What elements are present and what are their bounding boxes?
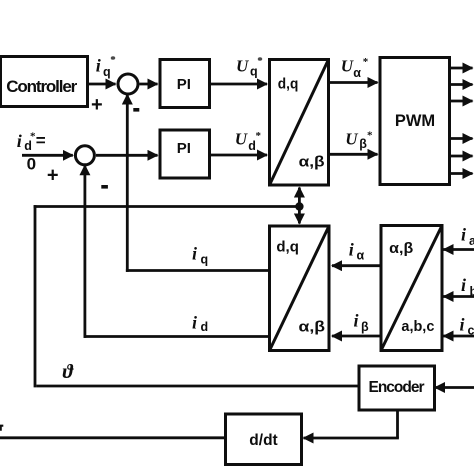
svg-text:a: a [469, 234, 474, 248]
svg-text:PI: PI [177, 76, 191, 93]
junction dot theta [295, 202, 303, 210]
svg-text:PWM: PWM [395, 112, 435, 130]
svg-text:PI: PI [177, 140, 191, 157]
wire encoder down [396, 410, 399, 438]
svg-text:U: U [236, 57, 249, 76]
svg-text:U: U [235, 130, 248, 149]
svg-text:i: i [96, 56, 101, 76]
wire ic input [444, 335, 474, 338]
PWM output arrow 5 [450, 155, 473, 158]
wire theta horizontal to junction dot [34, 205, 300, 208]
wire theta from encoder left [36, 385, 359, 388]
svg-text:*: * [110, 54, 116, 66]
wire ib input [444, 295, 474, 298]
summing junction q [118, 74, 138, 94]
label speed output remnant at left edge [0, 425, 3, 431]
svg-text:ϑ: ϑ [63, 361, 75, 383]
svg-text:d: d [201, 320, 209, 334]
PWM output arrow 3 [450, 100, 473, 103]
wire Ubeta* transform to PWM [330, 153, 378, 156]
PWM output arrow 1 [450, 67, 473, 70]
svg-text:i: i [192, 244, 197, 264]
summing junction d [75, 146, 94, 165]
svg-text:i: i [460, 315, 465, 335]
wire controller to q junction [88, 83, 116, 86]
svg-text:+: + [47, 165, 59, 187]
wire Ud* PI2 to transform [211, 154, 268, 157]
abc-to-alphabeta transform box [381, 226, 442, 351]
svg-text:=: = [36, 131, 46, 150]
wire encoder to d/dt [304, 437, 399, 440]
svg-text:q: q [201, 253, 209, 267]
svg-text:α: α [357, 249, 365, 263]
wire Ualpha* transform to PWM [330, 81, 378, 84]
wire id*=0 input to d junction [22, 154, 73, 157]
wire theta vertical [34, 205, 37, 387]
PWM output arrow 4 [450, 137, 473, 140]
svg-text:Controller: Controller [6, 77, 77, 96]
svg-text:i: i [354, 311, 359, 331]
svg-text:U: U [341, 57, 354, 76]
wire into encoder from right [435, 386, 474, 389]
wire ia input [444, 248, 474, 251]
wire iq feedback horizontal [126, 269, 270, 272]
d/dt box [226, 414, 302, 465]
svg-text:d,q: d,q [276, 239, 299, 256]
svg-text:*: * [367, 130, 373, 142]
svg-text:q: q [103, 65, 111, 79]
wire id feedback horizontal [84, 335, 270, 338]
alphabeta-to-dq transform box [270, 226, 330, 351]
svg-text:i: i [17, 131, 22, 151]
wire d/dt output to left edge [0, 436, 226, 439]
svg-text:c: c [468, 324, 474, 338]
svg-text:β: β [359, 137, 367, 151]
label minus at q junction [133, 108, 139, 112]
svg-text:α,β: α,β [299, 154, 325, 171]
svg-text:0: 0 [27, 155, 36, 174]
svg-text:*: * [257, 55, 263, 67]
svg-text:a,b,c: a,b,c [401, 318, 434, 335]
PI box 1 [160, 60, 210, 108]
svg-text:i: i [461, 275, 466, 295]
svg-text:*: * [256, 130, 262, 142]
wire i-alpha abc-box to dq-box [332, 264, 380, 267]
svg-text:U: U [345, 130, 358, 149]
svg-text:i: i [349, 240, 354, 260]
wire Uq* PI1 to transform [211, 83, 268, 86]
double arrow theta into both transforms [298, 188, 301, 224]
controller box [1, 57, 88, 107]
svg-text:d/dt: d/dt [249, 432, 277, 449]
svg-text:i: i [192, 313, 197, 333]
wire d junction to PI2 [96, 154, 158, 157]
svg-text:α,β: α,β [389, 240, 413, 257]
wire q junction to PI1 [140, 83, 158, 86]
svg-text:α: α [353, 66, 361, 80]
PI box 2 [160, 130, 210, 178]
svg-text:β: β [361, 320, 369, 334]
Encoder box [359, 366, 435, 410]
dq-to-alphabeta transform box [270, 60, 329, 186]
svg-text:α,β: α,β [299, 319, 326, 336]
svg-text:Encoder: Encoder [369, 379, 425, 396]
wire i-beta abc-box to dq-box [332, 335, 380, 338]
svg-text:b: b [470, 285, 474, 299]
PWM output arrow 2 [450, 83, 473, 86]
svg-text:*: * [363, 56, 369, 68]
PWM output arrow 6 [450, 172, 473, 175]
label minus at d junction [101, 185, 108, 189]
wire iq feedback vertical into q junction [126, 95, 129, 272]
wire id feedback vertical into d junction [84, 165, 87, 338]
svg-text:d,q: d,q [278, 76, 299, 93]
PWM box [380, 58, 450, 185]
svg-text:i: i [461, 225, 466, 245]
svg-text:+: + [91, 94, 103, 116]
